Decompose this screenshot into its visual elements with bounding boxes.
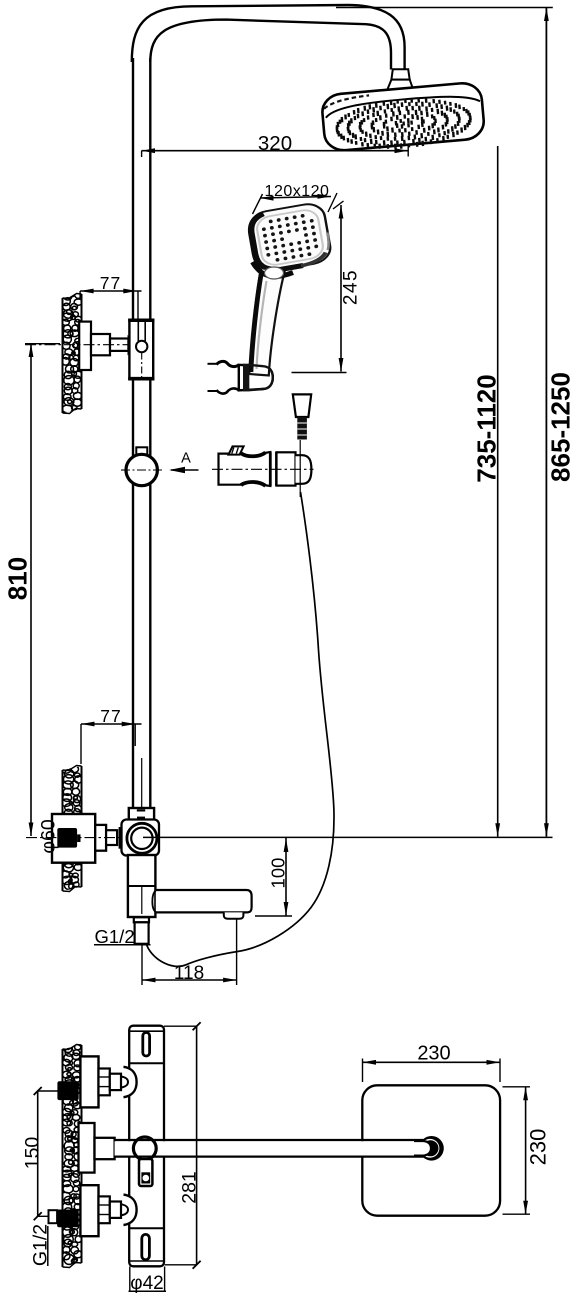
centerline mixer inlet	[26, 837, 122, 839]
svg-text:100: 100	[268, 858, 289, 889]
pipe top bend and shower arm	[132, 5, 405, 70]
hose axis line	[299, 440, 301, 497]
hand shower handle	[249, 268, 284, 376]
svg-text:245: 245	[341, 269, 362, 305]
temperature knob	[127, 823, 157, 853]
svg-text:77: 77	[100, 273, 121, 293]
wall anchor block	[57, 828, 77, 848]
holder clamp fingers	[217, 361, 239, 366]
inlet top stem	[110, 1074, 121, 1090]
G half connector	[134, 917, 149, 922]
svg-text:320: 320	[258, 132, 292, 155]
overhead shower head	[321, 82, 486, 156]
dim phi42	[129, 1267, 131, 1292]
svg-text:865-1250: 865-1250	[546, 372, 576, 482]
dim line 320	[142, 150, 409, 152]
upper bracket escutcheon	[79, 322, 91, 370]
inlet bottom stem	[110, 1202, 121, 1218]
arm end joint	[419, 1136, 444, 1161]
inlet bottom anchor	[57, 1210, 79, 1228]
svg-text:φ42: φ42	[130, 1273, 163, 1294]
dim line 118	[141, 944, 143, 985]
svg-text:150: 150	[22, 1137, 44, 1170]
upper bracket pipe	[110, 339, 128, 351]
svg-text:φ60: φ60	[38, 819, 60, 853]
dim line 735-1120	[497, 146, 499, 837]
riser pipe column	[132, 58, 134, 808]
diverter pull	[139, 1159, 152, 1186]
slider tee ball joint	[136, 341, 147, 352]
holder side view body	[219, 452, 271, 486]
dim line 77 lower	[81, 723, 142, 725]
mixer plate	[122, 820, 160, 856]
shower hose	[146, 492, 334, 966]
dim line 100	[285, 838, 287, 916]
dim line 230 right	[503, 1086, 531, 1088]
thermostat bar	[129, 1026, 164, 1267]
shower arm collar	[391, 69, 409, 79]
mixer inlet flange	[119, 827, 124, 849]
dim line 120x120	[260, 197, 331, 199]
svg-text:810: 810	[3, 557, 33, 600]
inlet top escutcheon	[80, 1056, 98, 1107]
svg-text:118: 118	[174, 963, 204, 984]
svg-text:77: 77	[100, 706, 121, 726]
bar slot top	[143, 1033, 150, 1057]
dim line 230 top	[362, 1059, 364, 1083]
dim line 150	[38, 1090, 58, 1092]
holder side view right	[277, 452, 296, 485]
inlet top hex	[99, 1069, 110, 1096]
centerline upper bracket	[25, 344, 133, 346]
bar slot bottom	[142, 1234, 150, 1259]
inlet top anchor	[57, 1081, 78, 1100]
dim line 245	[340, 205, 342, 372]
mixer body	[128, 855, 155, 917]
svg-text:735-1120: 735-1120	[472, 374, 502, 482]
svg-text:A: A	[181, 451, 191, 467]
svg-text:120x120: 120x120	[265, 183, 330, 200]
holder body	[239, 365, 273, 391]
shower arm top view	[115, 1141, 427, 1155]
svg-text:230: 230	[417, 1043, 450, 1065]
arm ball ring	[133, 1137, 156, 1160]
mixer cap	[129, 808, 154, 821]
hose connector cone	[293, 394, 311, 417]
slider knob	[126, 454, 157, 485]
slider tee sleeve	[129, 320, 153, 380]
hand shower head	[247, 201, 332, 273]
inlet bottom escutcheon	[80, 1185, 98, 1236]
slider knob tab	[136, 447, 147, 455]
upper bracket flare	[128, 337, 135, 354]
outlet mid escutcheon	[79, 1123, 95, 1173]
holder side view tab	[229, 446, 244, 454]
svg-text:281: 281	[179, 1171, 201, 1204]
shower arm flare	[387, 80, 414, 91]
holder front rim	[249, 365, 273, 390]
inlet bottom hex	[99, 1196, 110, 1223]
inlet bottom adapter	[49, 1210, 58, 1223]
holder rail stubs	[208, 363, 218, 365]
tub spout	[156, 890, 252, 912]
centerline holder side view	[212, 468, 314, 470]
upper bracket step	[91, 334, 110, 355]
inlet bottom check valve dome	[124, 1195, 137, 1225]
svg-text:G1/2: G1/2	[95, 926, 135, 947]
lower escutcheon	[52, 814, 95, 863]
dim line 77 upper	[80, 290, 141, 292]
dim line 865-1250	[545, 8, 547, 837]
svg-text:230: 230	[526, 1129, 551, 1166]
mixer inlet neck	[106, 830, 117, 845]
holder side view band	[269, 452, 272, 486]
mixer inlet step	[95, 825, 106, 851]
dim line 281	[164, 1025, 197, 1027]
outlet centerline right	[143, 836, 553, 838]
view arrow A	[171, 469, 199, 471]
spout aerator	[224, 912, 244, 918]
centerline slider knob	[121, 469, 163, 471]
inlet top check valve dome	[124, 1067, 137, 1097]
outlet mid stem	[95, 1138, 115, 1159]
dim line 810	[30, 344, 32, 837]
head square top view	[362, 1085, 500, 1215]
